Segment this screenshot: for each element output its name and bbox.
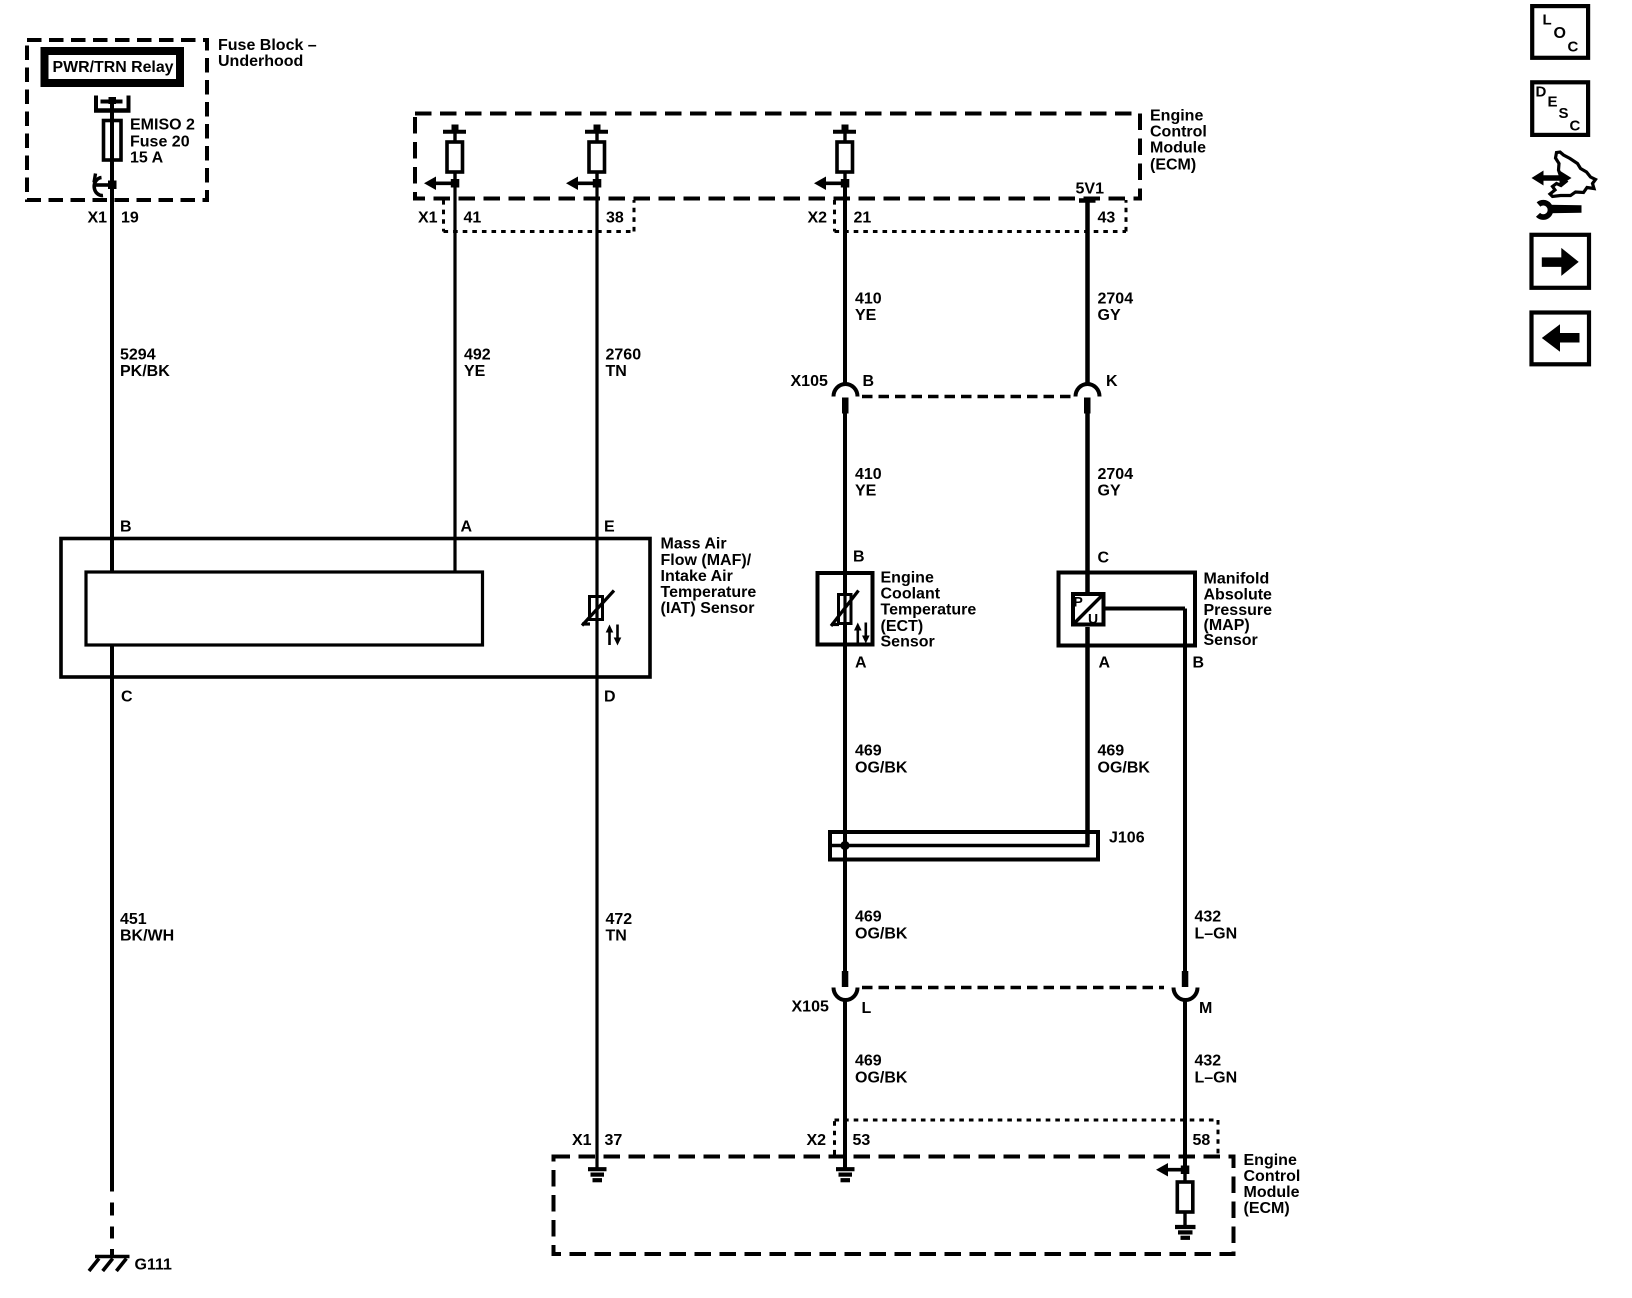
SECTION: fuse block underhood — [27, 37, 317, 1274]
svg-text:Control: Control — [1150, 123, 1207, 140]
internal pull-up resistor at pin 21 — [842, 125, 849, 131]
connector X105 pin L — [842, 971, 849, 987]
connector X105 pin K — [1076, 384, 1100, 397]
connector pin row X2 53 58 (dotted) — [835, 1120, 1219, 1155]
svg-text:B: B — [120, 519, 132, 536]
svg-text:B: B — [1193, 655, 1205, 672]
ground symbol at pin 53 — [836, 1167, 855, 1171]
svg-text:469: 469 — [855, 1053, 882, 1070]
fuse block - underhood dashed enclosure — [27, 40, 207, 200]
svg-text:X1: X1 — [418, 209, 438, 226]
svg-text:21: 21 — [854, 209, 872, 226]
svg-text:L: L — [1543, 12, 1552, 29]
internal pull-up resistor at pin 41 — [452, 125, 459, 131]
MAP internal line to pin B — [1106, 607, 1186, 611]
svg-text:L: L — [862, 1000, 872, 1017]
svg-text:OG/BK: OG/BK — [1098, 760, 1151, 777]
ground G111 (chassis) — [95, 1255, 130, 1259]
wire 432 L-GN: MAP pin B to X105 M — [1183, 648, 1187, 986]
icon DESC button — [1532, 82, 1588, 135]
wire 2704 GY: ECM 5V1/43 to X105 K — [1085, 201, 1090, 385]
svg-text:Underhood: Underhood — [218, 53, 303, 70]
svg-text:S: S — [1559, 105, 1569, 122]
MAP sensor box — [1059, 573, 1196, 646]
svg-text:C: C — [1568, 39, 1579, 56]
svg-text:Intake Air: Intake Air — [661, 568, 733, 585]
svg-text:X1: X1 — [572, 1132, 592, 1149]
X105 harness dashed link L-M — [862, 986, 1164, 990]
relay contact symbol — [94, 96, 98, 111]
svg-text:K: K — [1106, 373, 1118, 390]
svg-text:492: 492 — [464, 347, 491, 364]
svg-text:2704: 2704 — [1098, 466, 1134, 483]
svg-text:J106: J106 — [1109, 829, 1145, 846]
svg-text:5V1: 5V1 — [1076, 180, 1105, 197]
svg-text:D: D — [1536, 84, 1547, 101]
connector X105 pin B — [834, 384, 858, 397]
SECTION: bottom ECM — [554, 1120, 1301, 1254]
svg-text:Module: Module — [1244, 1184, 1300, 1201]
svg-text:M: M — [1199, 1000, 1212, 1017]
svg-text:410: 410 — [855, 290, 882, 307]
X105 harness dashed link B-K — [862, 395, 1076, 399]
svg-text:(IAT) Sensor: (IAT) Sensor — [661, 600, 755, 617]
connector hook symbol at block exit — [94, 174, 96, 183]
svg-text:Temperature: Temperature — [881, 601, 977, 618]
wire 469 OG/BK: MAP pin A to J106 — [1085, 627, 1090, 845]
svg-text:Fuse 20: Fuse 20 — [130, 134, 190, 151]
svg-text:38: 38 — [606, 209, 624, 226]
svg-text:(ECT): (ECT) — [881, 618, 924, 635]
svg-text:Control: Control — [1244, 1168, 1301, 1185]
svg-text:Engine: Engine — [1244, 1152, 1297, 1169]
svg-text:TN: TN — [606, 928, 627, 945]
connector X105 pin M — [1182, 971, 1189, 987]
wire 469 OG/BK: ECT pin A to J106 — [843, 624, 847, 832]
svg-text:Manifold: Manifold — [1204, 571, 1270, 588]
svg-text:C: C — [1098, 549, 1110, 566]
svg-text:A: A — [855, 655, 867, 672]
SECTION: sensors — [61, 519, 1272, 706]
svg-text:Sensor: Sensor — [1204, 632, 1258, 649]
svg-text:D: D — [604, 689, 616, 706]
svg-text:19: 19 — [121, 210, 139, 227]
fuse EMISO 2 Fuse 20 15A — [104, 121, 122, 161]
svg-text:469: 469 — [1098, 743, 1125, 760]
icon LOC button — [1532, 6, 1588, 58]
svg-text:OG/BK: OG/BK — [855, 760, 908, 777]
svg-text:OG/BK: OG/BK — [855, 926, 908, 943]
svg-text:Flow (MAF)/: Flow (MAF)/ — [661, 552, 752, 569]
svg-text:Coolant: Coolant — [881, 586, 941, 603]
connector pin row X2 21 43 (dotted) — [835, 200, 1127, 232]
ground symbol at pin 37 — [588, 1167, 607, 1171]
svg-text:41: 41 — [464, 209, 482, 226]
wire 472 TN: MAF pin D to ECM pin 37 — [595, 621, 598, 1168]
svg-text:PWR/TRN Relay: PWR/TRN Relay — [53, 59, 174, 76]
ECT sensor box — [818, 573, 873, 645]
svg-text:L–GN: L–GN — [1195, 926, 1238, 943]
MAF/IAT sensor B1 outer box — [61, 539, 650, 678]
ECT bidirectional arrows — [856, 628, 859, 643]
svg-text:PK/BK: PK/BK — [120, 363, 170, 380]
svg-text:X2: X2 — [808, 209, 828, 226]
svg-text:432: 432 — [1195, 909, 1222, 926]
svg-text:(ECM): (ECM) — [1150, 156, 1196, 173]
icon harness/wrench (panel outline) — [1550, 152, 1596, 197]
svg-text:469: 469 — [855, 743, 882, 760]
wire: lower segment to ground (solid then dashed) — [110, 647, 114, 1192]
svg-text:A: A — [461, 519, 473, 536]
SECTION: top ECM — [415, 107, 1207, 231]
icon next (right arrow) button — [1532, 235, 1590, 288]
svg-text:X2: X2 — [807, 1132, 827, 1149]
svg-text:2704: 2704 — [1098, 290, 1134, 307]
icon back (left arrow) button — [1532, 313, 1590, 365]
ECT thermistor — [843, 575, 847, 596]
svg-text:E: E — [604, 519, 615, 536]
wire: relay to fuse — [110, 102, 114, 121]
icon harness/wrench (double arrow) — [1541, 175, 1562, 181]
internal arrow at pin 58 — [1165, 1168, 1186, 1172]
svg-text:410: 410 — [855, 466, 882, 483]
svg-text:C: C — [121, 689, 133, 706]
wire 410 YE: X105 B to ECT pin B — [843, 411, 847, 594]
svg-text:YE: YE — [855, 483, 877, 500]
svg-text:432: 432 — [1195, 1053, 1222, 1070]
connector pin row X1 41 38 (dotted) — [444, 200, 635, 232]
svg-text:472: 472 — [606, 911, 633, 928]
svg-text:53: 53 — [853, 1132, 871, 1149]
svg-text:5294: 5294 — [120, 347, 156, 364]
svg-text:YE: YE — [464, 363, 486, 380]
svg-text:GY: GY — [1098, 307, 1121, 324]
wire 432 L-GN: X105 M to ECM pin 58 — [1183, 1000, 1187, 1171]
svg-text:Fuse Block –: Fuse Block – — [218, 37, 317, 54]
svg-text:451: 451 — [120, 911, 147, 928]
IAT bidirectional arrows — [608, 630, 611, 645]
MAP P/U transducer symbol — [1073, 594, 1104, 625]
icon harness/wrench (wrench) — [1538, 203, 1550, 217]
svg-text:B: B — [863, 373, 875, 390]
IAT thermistor (inside MAF box) — [590, 597, 603, 620]
wire 410 YE: ECM pin 21 to X105 B — [843, 183, 847, 384]
svg-text:BK/WH: BK/WH — [120, 928, 174, 945]
svg-text:58: 58 — [1193, 1132, 1211, 1149]
svg-text:B: B — [853, 549, 865, 566]
svg-text:TN: TN — [606, 363, 627, 380]
svg-text:YE: YE — [855, 307, 877, 324]
svg-text:469: 469 — [855, 909, 882, 926]
MAF inner element box — [86, 572, 483, 645]
ECM U1 dashed enclosure (top) — [415, 114, 1140, 199]
SECTION: toolbar icons — [1532, 6, 1596, 364]
svg-text:EMISO 2: EMISO 2 — [130, 117, 195, 134]
svg-text:G111: G111 — [135, 1257, 172, 1274]
svg-text:A: A — [1099, 655, 1111, 672]
svg-text:Engine: Engine — [1150, 107, 1203, 124]
svg-text:Temperature: Temperature — [661, 584, 757, 601]
splice J106 — [830, 832, 1098, 860]
svg-text:X105: X105 — [791, 373, 828, 390]
junction dot at J106 — [840, 841, 849, 850]
wire 469 OG/BK: X105 L to ECM pin 53 — [843, 1000, 847, 1169]
SECTION: wires mid — [455, 183, 1237, 1170]
internal arrow at pin 38 — [575, 182, 598, 186]
internal pull-up resistor at pin 38 — [594, 125, 601, 131]
svg-text:2760: 2760 — [606, 347, 642, 364]
svg-text:Module: Module — [1150, 139, 1206, 156]
svg-text:O: O — [1554, 25, 1566, 42]
svg-text:E: E — [1548, 94, 1558, 111]
relay K1: PWR/TRN Relay label box — [45, 51, 181, 83]
wire 2704 GY: X105 K to MAP pin C — [1085, 411, 1090, 592]
wire 2760 TN: ECM pin 38 to MAF pin E — [595, 183, 598, 595]
svg-text:C: C — [1570, 118, 1581, 135]
svg-text:P: P — [1074, 594, 1083, 610]
svg-text:OG/BK: OG/BK — [855, 1070, 908, 1087]
wire: fuse down through block — [110, 159, 114, 571]
ECM U1 dashed enclosure (bottom) — [554, 1157, 1234, 1255]
svg-text:X1: X1 — [88, 210, 108, 227]
svg-text:Engine: Engine — [881, 569, 934, 586]
internal arrow at pin 41 — [433, 182, 456, 186]
svg-text:L–GN: L–GN — [1195, 1070, 1238, 1087]
svg-text:37: 37 — [605, 1132, 623, 1149]
internal resistor at pin 58 — [1183, 1170, 1186, 1182]
svg-text:(ECM): (ECM) — [1244, 1200, 1290, 1217]
internal arrow at pin 21 — [823, 182, 846, 186]
junction dot — [108, 181, 117, 190]
wire 469 OG/BK: J106 to X105 L — [843, 860, 847, 986]
svg-text:Sensor: Sensor — [881, 634, 935, 651]
svg-text:15 A: 15 A — [130, 150, 164, 167]
svg-text:X105: X105 — [792, 999, 829, 1016]
ground symbol at pin 58 resistor — [1175, 1225, 1196, 1229]
svg-text:GY: GY — [1098, 483, 1121, 500]
svg-text:Mass Air: Mass Air — [661, 536, 727, 553]
wire 492 YE: ECM pin 41 to MAF pin A — [453, 183, 456, 571]
svg-text:U: U — [1088, 611, 1098, 627]
svg-text:43: 43 — [1098, 209, 1116, 226]
